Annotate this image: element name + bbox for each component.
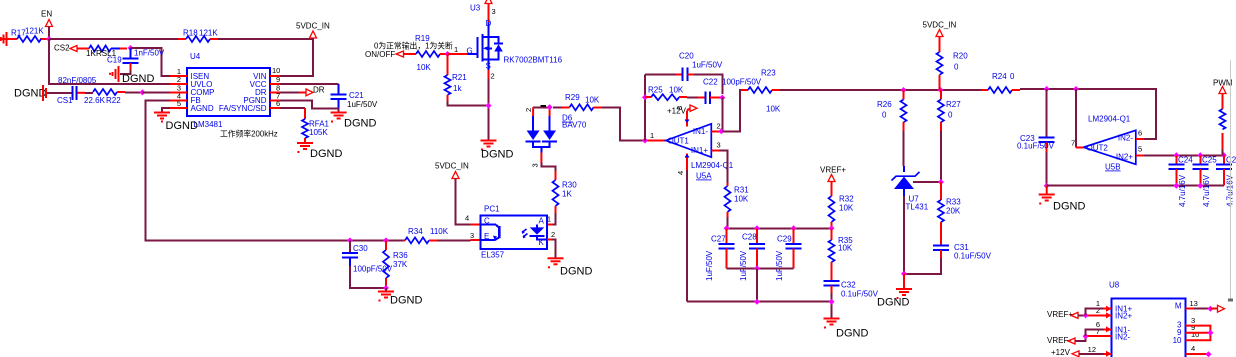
node R36/C30 gnd junction	[383, 285, 389, 291]
svg-text:IN2-: IN2-	[1118, 134, 1133, 143]
node C32 junction	[829, 299, 835, 305]
node caps bus junction	[754, 265, 760, 271]
svg-text:1uF/50V: 1uF/50V	[692, 61, 723, 70]
wire to IN1-	[719, 98, 722, 132]
port VREF+ (R32)	[820, 166, 846, 197]
capacitor C20 1uF/50V	[645, 52, 723, 95]
svg-text:0: 0	[882, 111, 887, 120]
node U7 anode junction	[901, 271, 907, 277]
svg-text:BAV70: BAV70	[562, 121, 587, 130]
node source junction	[486, 103, 492, 109]
wire D6 to R30	[541, 163, 555, 178]
svg-text:C22: C22	[703, 78, 718, 87]
capacitor C25 4.7u/16V	[1192, 155, 1217, 207]
ground DGND (R36)	[378, 288, 422, 307]
wire caps bottom bus	[727, 267, 794, 269]
svg-text:IN2+: IN2+	[1115, 311, 1132, 320]
svg-text:DR: DR	[313, 86, 325, 95]
svg-text:0.1uF/50V: 0.1uF/50V	[841, 290, 879, 299]
ground DGND (U4 AGND pin5)	[154, 108, 198, 132]
svg-text:U3: U3	[470, 4, 481, 13]
resistor R35 10K	[829, 228, 854, 281]
IC U4 LM3481	[170, 52, 280, 129]
svg-text:R20: R20	[953, 52, 968, 61]
capacitor C21 1uF/50V	[331, 84, 378, 109]
svg-text:22.6K: 22.6K	[84, 96, 106, 105]
svg-text:1uF/50V: 1uF/50V	[347, 100, 378, 109]
port VREF- (U8)	[1047, 336, 1086, 345]
resistor R24 0	[981, 72, 1020, 93]
node OUT2 junction	[1073, 86, 1079, 92]
svg-text:PC1: PC1	[484, 205, 500, 214]
capacitor C32 0.1uF/50V	[824, 281, 879, 319]
node C22 junction	[719, 95, 725, 101]
wire R30 to PC1 pin1	[553, 213, 556, 224]
resistor R32 10K	[829, 195, 855, 229]
svg-text:A: A	[539, 217, 545, 226]
resistor R34 110K	[403, 227, 480, 243]
node gate junction	[445, 51, 451, 57]
wire EN to R18	[49, 38, 178, 40]
svg-text:DGND: DGND	[481, 149, 513, 161]
node COMP junction	[139, 89, 145, 95]
svg-text:R31: R31	[734, 186, 749, 195]
svg-text:DGND: DGND	[560, 266, 592, 278]
svg-text:C24: C24	[1178, 156, 1193, 165]
svg-text:10: 10	[1173, 336, 1182, 345]
svg-text:OUT1: OUT1	[668, 137, 690, 146]
ground port DGND (CS1)	[14, 85, 72, 101]
port 5VDC_IN (R20)	[923, 21, 957, 53]
svg-text:+12V: +12V	[667, 107, 687, 116]
port VREF+ (U8)	[1047, 310, 1086, 319]
op-amp U5B LM2904-Q1	[1071, 115, 1144, 172]
wire gate	[448, 53, 468, 55]
node TL431 ref junction	[938, 179, 944, 185]
svg-text:OUT2: OUT2	[1087, 144, 1109, 153]
svg-text:R27: R27	[946, 100, 961, 109]
svg-text:S: S	[486, 62, 491, 71]
svg-text:C20: C20	[679, 52, 694, 61]
resistor R29 10K	[553, 93, 602, 110]
ground DGND (U3 source)	[481, 141, 514, 161]
wire M to port	[1186, 305, 1225, 312]
svg-text:RK7002BMT116: RK7002BMT116	[504, 56, 563, 65]
svg-text:EN: EN	[41, 10, 52, 19]
svg-text:10K: 10K	[417, 63, 432, 72]
wire FB loop down	[145, 100, 350, 240]
svg-text:R23: R23	[761, 69, 776, 78]
capacitor C26 4.7u/16V	[1216, 155, 1236, 207]
capacitor C31 0.1uF/50V	[904, 243, 992, 274]
svg-text:DGND: DGND	[877, 297, 909, 309]
svg-text:LM2904-Q1: LM2904-Q1	[1088, 115, 1131, 124]
resistor R21 1k	[445, 54, 468, 101]
wire R29 to opamp output node	[602, 107, 645, 140]
svg-text:121K: 121K	[25, 27, 44, 36]
svg-text:+12V: +12V	[1051, 348, 1071, 357]
capacitor C23 0.1uF/50V	[1017, 89, 1055, 186]
wire FA/SYNC/SD to RFA1	[280, 107, 305, 109]
resistor R (PWM)	[1220, 109, 1226, 155]
wire IN2+ bus	[1144, 154, 1224, 156]
wire ground bus right	[1047, 185, 1224, 187]
capacitor CS1	[57, 86, 85, 105]
capacitor C29 1uF/50V	[775, 228, 802, 281]
wire R21 to source node	[448, 101, 489, 106]
svg-text:4: 4	[1191, 344, 1195, 353]
node C25 gnd junction	[1197, 183, 1203, 189]
port 5VDC_IN (U4)	[296, 22, 330, 43]
svg-text:1uF/50V: 1uF/50V	[775, 250, 784, 281]
left edge power bars	[0, 32, 8, 46]
svg-text:4: 4	[676, 171, 685, 175]
node C30 junction	[347, 237, 353, 243]
svg-text:R29: R29	[565, 93, 580, 102]
svg-text:C27: C27	[711, 235, 726, 244]
svg-text:2: 2	[1096, 306, 1100, 315]
resistor R18	[178, 29, 218, 43]
node R25 junction	[642, 94, 648, 100]
wire junction to ISEN	[131, 48, 171, 76]
svg-text:DGND: DGND	[344, 118, 376, 130]
capacitor C19 1nF/50V	[107, 48, 165, 70]
wire ground bus 302	[687, 301, 832, 303]
svg-text:1nF/50V: 1nF/50V	[134, 49, 165, 58]
svg-text:1: 1	[650, 131, 654, 140]
node C23 junction	[1044, 86, 1050, 92]
wire FB net to R34	[350, 239, 403, 241]
svg-text:C32: C32	[841, 281, 856, 290]
svg-text:5VDC_IN: 5VDC_IN	[296, 22, 330, 31]
svg-text:13: 13	[1190, 299, 1198, 308]
capacitor C28 1uF/50V	[739, 228, 765, 281]
svg-text:1uF/50V: 1uF/50V	[739, 250, 748, 281]
svg-text:VREF+: VREF+	[1047, 310, 1073, 319]
wire pins 3 9 10 tie	[1186, 326, 1214, 341]
port DR	[280, 86, 325, 96]
resistor R19 10K	[409, 34, 448, 72]
svg-text:10K: 10K	[669, 86, 684, 95]
port 5VDC_IN (PC1)	[435, 162, 469, 184]
svg-text:IN1-: IN1-	[693, 127, 708, 136]
resistor R25 10K	[645, 86, 687, 101]
svg-text:3: 3	[531, 163, 540, 167]
svg-text:10: 10	[272, 66, 280, 75]
port 3 (U3 drain)	[485, 0, 496, 22]
svg-text:3: 3	[492, 7, 496, 16]
svg-text:0: 0	[1010, 72, 1015, 81]
op-amp U5A LM2904-Q1	[650, 106, 734, 181]
ground DGND (C23)	[1039, 186, 1086, 213]
node U8 in- junction	[1083, 333, 1089, 339]
IC U8	[1086, 281, 1200, 357]
svg-text:C28: C28	[742, 233, 757, 242]
capacitor C24 4.7u/16V	[1168, 155, 1193, 207]
svg-text:R26: R26	[877, 100, 892, 109]
svg-text:1K: 1K	[562, 190, 572, 199]
svg-text:CS1: CS1	[57, 96, 73, 105]
wire R18 to 5VDC_IN	[218, 39, 313, 76]
svg-text:4.7u/16V: 4.7u/16V	[1202, 174, 1211, 207]
wire pin4 stub	[1186, 351, 1212, 357]
node C27 junction	[724, 225, 730, 231]
svg-text:6: 6	[276, 99, 280, 108]
port PWM	[1213, 79, 1233, 110]
resistor R31 10K	[725, 183, 750, 228]
capacitor C27 1uF/50V	[705, 228, 735, 281]
resistor R22 22.6K	[84, 89, 142, 105]
svg-text:IN2-: IN2-	[1115, 332, 1130, 341]
node C24 gnd junction	[1173, 183, 1179, 189]
node U8 in+ junction	[1083, 312, 1089, 318]
svg-text:AGND: AGND	[191, 104, 214, 113]
svg-text:37K: 37K	[393, 260, 408, 269]
node RSL1/C19 junction	[128, 45, 134, 51]
svg-text:0为正常输出，1为关断: 0为正常输出，1为关断	[374, 41, 453, 51]
svg-text:C19: C19	[107, 56, 122, 65]
node IN1- junction	[718, 128, 724, 134]
ground DGND (RFA1)	[297, 143, 342, 160]
node EN junction	[46, 36, 52, 42]
capacitor C22 100pF/50V	[687, 78, 762, 104]
svg-text:R32: R32	[839, 195, 854, 204]
svg-text:U4: U4	[190, 52, 201, 61]
resistor R27 0	[938, 90, 961, 182]
resistor R26 0	[877, 90, 907, 166]
svg-text:20K: 20K	[946, 207, 961, 216]
scrollbar line	[1228, 60, 1233, 302]
resistor R33 20K	[938, 182, 961, 246]
resistor R17	[8, 27, 49, 43]
svg-text:G: G	[467, 47, 473, 56]
svg-text:5: 5	[1138, 145, 1142, 154]
node R26 junction	[901, 87, 907, 93]
node D6 junction	[547, 104, 553, 110]
wire main row to R26/R27	[780, 89, 981, 91]
ground DGND (C21/PGND)	[331, 108, 377, 129]
svg-text:C21: C21	[349, 91, 364, 100]
node C26 junction	[1221, 152, 1227, 158]
svg-text:2: 2	[491, 72, 495, 81]
resistor R23 10K	[722, 69, 781, 132]
svg-text:DGND: DGND	[390, 295, 422, 307]
wire drop to ground bus	[756, 268, 758, 301]
svg-text:LM3481: LM3481	[194, 120, 223, 129]
svg-text:CS2: CS2	[54, 44, 70, 53]
wire PGND to ground	[280, 100, 339, 108]
wire VREF+ to pin1	[1086, 309, 1104, 316]
svg-text:DGND: DGND	[1053, 201, 1085, 213]
svg-text:2: 2	[524, 108, 533, 112]
svg-text:C30: C30	[353, 244, 368, 253]
svg-text:U5B: U5B	[1105, 163, 1121, 172]
svg-text:FA/SYNC/SD: FA/SYNC/SD	[219, 104, 267, 113]
wire U5A pin4 to ground bus	[686, 170, 688, 302]
port +12V (U8)	[1051, 348, 1104, 357]
svg-text:0.1uF/50V: 0.1uF/50V	[954, 252, 992, 261]
wire OUT2 feedback	[1075, 89, 1077, 147]
wire VCC to C21	[280, 83, 339, 85]
svg-text:ON/OFF: ON/OFF	[365, 50, 395, 59]
svg-text:R22: R22	[106, 96, 121, 105]
wire 5VDC_IN to PC1 pin4	[456, 183, 471, 224]
svg-text:10K: 10K	[585, 96, 600, 105]
ground DGND (C19)	[109, 66, 154, 85]
svg-text:3: 3	[717, 141, 721, 150]
svg-text:1uF/50V: 1uF/50V	[705, 250, 714, 281]
svg-text:R30: R30	[562, 181, 577, 190]
svg-text:R36: R36	[393, 251, 408, 260]
svg-text:R17: R17	[11, 29, 26, 38]
svg-text:DGND: DGND	[836, 328, 868, 340]
wire VREF- to pin6	[1086, 329, 1104, 336]
ground DGND (C32)	[824, 319, 869, 340]
svg-text:5VDC_IN: 5VDC_IN	[435, 162, 469, 171]
svg-text:R34: R34	[408, 227, 423, 236]
svg-text:10K: 10K	[734, 195, 749, 204]
svg-text:1: 1	[454, 45, 458, 54]
svg-text:R33: R33	[946, 198, 961, 207]
svg-text:DGND: DGND	[14, 88, 46, 100]
node R27 junction	[938, 87, 944, 93]
wire R24 to U5B net	[1020, 89, 1156, 139]
svg-text:100pF/50V: 100pF/50V	[722, 78, 762, 87]
node C23 gnd junction	[1044, 183, 1050, 189]
svg-text:10: 10	[1191, 330, 1199, 339]
svg-text:R25: R25	[648, 86, 663, 95]
svg-text:EL357: EL357	[481, 251, 505, 260]
wire feedback vertical	[644, 74, 646, 140]
svg-text:12: 12	[1088, 345, 1096, 354]
node R32/R35 junction	[829, 225, 835, 231]
node output junction	[642, 138, 648, 144]
wire IN1+ to R31	[719, 150, 727, 183]
svg-text:C25: C25	[1202, 156, 1217, 165]
svg-text:2: 2	[717, 122, 721, 131]
shunt regulator U7 TL431	[892, 166, 941, 274]
svg-text:IN2+: IN2+	[1116, 153, 1133, 162]
resistor RSL1 1K	[86, 46, 127, 59]
wire EN down to UVLO	[49, 39, 170, 84]
node C25 junction	[1197, 152, 1203, 158]
wire PC1 pin2 to ground	[547, 239, 556, 258]
svg-text:C29: C29	[777, 235, 792, 244]
port EN	[41, 10, 53, 40]
svg-text:U5A: U5A	[696, 172, 712, 181]
svg-text:TL431: TL431	[906, 203, 929, 212]
svg-text:R19: R19	[415, 34, 430, 43]
node C24 junction	[1173, 152, 1179, 158]
transistor U3 RK7002BMT116	[454, 4, 563, 141]
capacitor C30 100pF/50V	[342, 240, 393, 288]
svg-text:0.1uF/50V: 0.1uF/50V	[1017, 142, 1055, 151]
svg-text:0: 0	[954, 63, 959, 72]
node C28 junction	[754, 225, 760, 231]
svg-text:VREF+: VREF+	[820, 166, 846, 175]
diode D6 BAV70	[524, 105, 587, 168]
ground DGND (U7)	[877, 274, 912, 309]
svg-text:10K: 10K	[766, 105, 781, 114]
svg-text:10K: 10K	[838, 244, 853, 253]
node ground bus junction	[754, 299, 760, 305]
svg-text:R18: R18	[183, 29, 198, 38]
svg-text:2: 2	[551, 230, 555, 239]
wire output stub	[647, 140, 666, 142]
svg-text:110K: 110K	[430, 227, 449, 236]
svg-text:DGND: DGND	[310, 148, 342, 160]
svg-text:5: 5	[177, 99, 181, 108]
svg-text:U8: U8	[1109, 281, 1120, 290]
svg-text:R21: R21	[452, 73, 467, 82]
svg-text:3: 3	[470, 231, 474, 240]
node C29 junction	[791, 225, 797, 231]
port +12V (U5A)	[667, 105, 697, 116]
svg-text:工作频率200kHz: 工作频率200kHz	[220, 129, 278, 139]
wire junction to COMP	[142, 91, 170, 93]
resistor R20 0	[937, 52, 969, 91]
svg-text:4.7u/16V: 4.7u/16V	[1178, 174, 1187, 207]
svg-text:7: 7	[1071, 139, 1075, 148]
svg-text:M: M	[1175, 302, 1182, 311]
svg-text:0: 0	[948, 111, 953, 120]
svg-text:6: 6	[1138, 129, 1142, 138]
svg-text:R24: R24	[992, 72, 1007, 81]
svg-text:7: 7	[1096, 327, 1100, 336]
svg-text:DGND: DGND	[122, 73, 154, 85]
svg-text:IN1+: IN1+	[691, 146, 708, 155]
port ON/OFF	[365, 50, 409, 59]
svg-text:DGND: DGND	[166, 120, 198, 132]
svg-text:1K: 1K	[86, 49, 96, 58]
svg-text:4: 4	[465, 213, 469, 222]
svg-text:1k: 1k	[453, 84, 462, 93]
wire ref bus 228	[727, 227, 832, 229]
optocoupler PC1 EL357	[480, 205, 547, 260]
port CS2	[54, 44, 89, 53]
svg-text:82nF/0805: 82nF/0805	[58, 76, 97, 85]
ground DGND (PC1 pin2)	[548, 258, 593, 277]
svg-text:121K: 121K	[199, 29, 218, 38]
node R36 junction	[383, 237, 389, 243]
resistor R36 37K	[383, 240, 408, 288]
svg-text:105K: 105K	[309, 128, 328, 137]
resistor RFA1 105K	[302, 108, 330, 143]
resistor R30 1K	[553, 171, 578, 213]
svg-text:10K: 10K	[839, 204, 854, 213]
